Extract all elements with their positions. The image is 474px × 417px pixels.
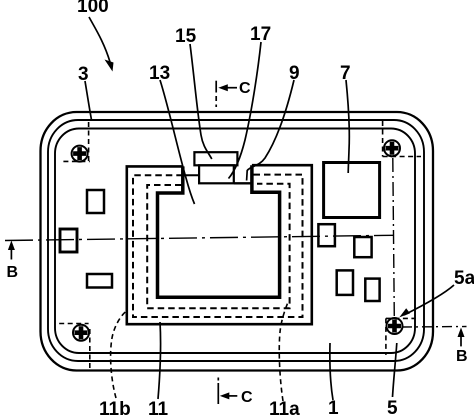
screw top-right: [384, 140, 400, 156]
connector body 17 lower rectangle: [199, 165, 234, 183]
section arrow B right: [458, 328, 465, 347]
svg-text:C: C: [241, 389, 253, 406]
svg-text:100: 100: [77, 0, 109, 17]
leader for 15: [190, 44, 212, 159]
frame 11 outer solid rectangle: [127, 165, 312, 324]
leader for 9: [247, 80, 294, 181]
svg-text:5a: 5a: [454, 268, 474, 289]
leader for 100 with arrowhead: [89, 17, 110, 62]
gasket 11b outer dashed rectangle: [133, 175, 303, 317]
leader for 11b (dashed): [111, 310, 128, 398]
right shelf line: [234, 182, 252, 184]
leader for 5: [393, 343, 397, 397]
component left horizontal rect: [87, 274, 112, 288]
leader for 5a with arrowhead: [404, 285, 454, 315]
screw hidden outline top-right (dashed): [383, 121, 421, 157]
section arrow C top: [218, 84, 237, 91]
component right rect below centerline: [354, 237, 371, 257]
left shelf line: [183, 174, 199, 176]
leader for 1: [330, 343, 333, 400]
svg-text:B: B: [7, 264, 19, 281]
component left square on centerline: [60, 229, 77, 252]
screw hidden outline bottom-right (dashed): [386, 318, 416, 355]
svg-text:13: 13: [149, 63, 170, 84]
svg-text:B: B: [456, 348, 468, 365]
svg-text:15: 15: [175, 26, 197, 47]
screw bottom-left: [73, 325, 89, 341]
svg-text:11b: 11b: [99, 399, 131, 417]
case outer outline: [41, 112, 434, 371]
svg-text:5: 5: [387, 398, 398, 417]
svg-text:C: C: [239, 80, 251, 97]
component left tall rect: [87, 190, 104, 213]
case middle outline: [48, 120, 424, 361]
component right lower-left rect: [337, 270, 353, 295]
leader for 11: [158, 322, 161, 399]
section line C bottom tick: [217, 378, 219, 405]
leader for 17: [229, 42, 262, 179]
screw hidden outline top-left (dashed): [63, 122, 89, 162]
vertical dash-dot line through right screws: [393, 158, 395, 318]
svg-text:7: 7: [340, 63, 351, 84]
section arrow B left: [8, 241, 15, 260]
leader for 11a (dashed): [279, 301, 288, 401]
centerline axis B-B (dash-dot horizontal): [5, 235, 394, 240]
svg-text:1: 1: [328, 398, 339, 417]
svg-text:9: 9: [289, 63, 300, 84]
seal 11a inner dashed rectangle: [147, 184, 289, 308]
connector cap 15 upper rectangle: [194, 152, 237, 165]
svg-text:3: 3: [78, 64, 89, 85]
screw 5 bottom-right: [387, 318, 403, 334]
leader for 13: [160, 80, 195, 204]
section line C top tick: [215, 81, 217, 93]
dash-dot line to B arrow bottom right: [402, 326, 467, 329]
svg-text:17: 17: [250, 24, 271, 45]
holder 13 thick rectangle with top notch: [158, 165, 280, 297]
leader for 7: [346, 80, 349, 173]
case inner wall outline: [55, 129, 415, 354]
screw 5a top-left: [72, 146, 88, 162]
svg-text:11a: 11a: [269, 399, 300, 417]
component 7 big square: [324, 163, 380, 218]
svg-text:11: 11: [148, 399, 169, 417]
component right lower-right rect: [365, 279, 379, 301]
section arrow C bottom: [220, 392, 238, 399]
component right square on centerline: [318, 224, 335, 246]
screw hidden outline bottom-left (dashed): [59, 324, 90, 371]
leader for 3: [85, 81, 92, 120]
